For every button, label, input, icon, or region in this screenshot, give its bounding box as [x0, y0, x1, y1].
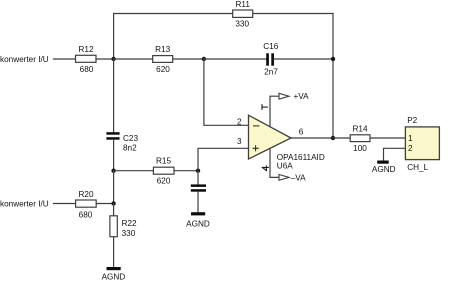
svg-text:2n7: 2n7	[264, 68, 278, 77]
svg-text:R22: R22	[122, 219, 137, 228]
svg-text:1: 1	[408, 134, 413, 143]
wire top feedback rail left segment	[114, 13, 233, 15]
wire node D up to op-amp pin 3	[198, 148, 249, 170]
wire top feedback rail right segment	[253, 13, 333, 15]
wire left vertical from top rail down to input node	[113, 14, 115, 60]
svg-text:3: 3	[237, 137, 242, 146]
svg-text:–VA: –VA	[291, 173, 306, 182]
svg-text:C16: C16	[263, 42, 278, 51]
wire C16 to right rail	[274, 58, 333, 60]
svg-text:AGND: AGND	[372, 165, 396, 174]
svg-text:6: 6	[299, 128, 304, 137]
junction node B (inverting input net)	[202, 57, 206, 61]
wire node C down to input node 2	[113, 171, 115, 204]
wire node B to C16	[204, 58, 267, 60]
resistor R22	[110, 216, 137, 238]
svg-text:R13: R13	[155, 45, 170, 54]
wire output node to R14	[333, 137, 350, 139]
svg-text:CH_L: CH_L	[407, 163, 428, 172]
power symbol +VA	[279, 92, 309, 101]
op-amp minus symbol	[254, 125, 259, 127]
svg-text:R12: R12	[78, 45, 93, 54]
wire op-amp pin 7 to +VA	[270, 96, 279, 126]
wire R12 to node A	[96, 58, 114, 60]
ground AGND below R22	[102, 267, 126, 282]
junction output node on right rail	[331, 136, 335, 140]
junction node E	[111, 201, 115, 205]
wire op-amp pin 4 to -VA	[270, 149, 279, 178]
ground AGND below capacitor	[186, 212, 210, 228]
capacitor C16	[263, 42, 278, 76]
node input 2 label konwerter I/U	[0, 199, 49, 208]
pin 2 label	[237, 117, 242, 126]
resistor R15	[153, 157, 174, 186]
wire P2 pin 2 to AGND	[384, 148, 406, 160]
capacitor C23	[106, 132, 138, 152]
wire R14 to P2 pin 1	[370, 137, 405, 139]
wire C23 down to node C	[113, 140, 115, 171]
svg-text:R11: R11	[235, 0, 250, 9]
svg-text:AGND: AGND	[102, 273, 126, 282]
node input 1 label konwerter I/U	[0, 55, 49, 64]
pin 3 label	[237, 137, 242, 146]
op-amp part labels OPA1611AID U6A	[277, 153, 325, 171]
resistor R12	[76, 45, 97, 74]
pin 4 label (rotated digit 4 drawn as path)	[262, 166, 268, 171]
resistor R20	[76, 190, 97, 220]
wire capacitor to AGND	[197, 192, 199, 212]
wire input2 to R20	[54, 203, 76, 205]
op-amp plus symbol	[253, 146, 258, 151]
resistor R11	[233, 0, 253, 29]
svg-text:+VA: +VA	[294, 92, 310, 101]
wire R22 to AGND	[113, 237, 115, 267]
svg-text:U6A: U6A	[277, 162, 293, 171]
svg-text:100: 100	[353, 144, 367, 153]
wire R15 to node D	[174, 170, 198, 172]
svg-text:konwerter I/U: konwerter I/U	[0, 55, 49, 64]
svg-text:330: 330	[122, 229, 136, 238]
svg-text:R20: R20	[78, 190, 93, 199]
wire right vertical rail (output net)	[332, 14, 334, 139]
junction node A (input summing node)	[111, 57, 115, 61]
svg-text:620: 620	[156, 65, 170, 74]
power symbol -VA	[279, 173, 306, 182]
svg-text:8n2: 8n2	[123, 144, 137, 153]
capacitor (unlabeled) at non-inverting input	[191, 184, 206, 191]
op-amp U6A triangle	[249, 115, 292, 159]
wire node D down to bypass capacitor	[197, 171, 199, 185]
wire node A to R13	[114, 58, 153, 60]
wire node E down to R22	[113, 204, 115, 216]
pin 7 label (rotated digit 7 drawn as path)	[262, 105, 267, 110]
wire node B down to op-amp pin 2	[204, 59, 249, 125]
svg-text:P2: P2	[407, 116, 417, 125]
ground AGND at P2 pin 2	[372, 161, 396, 175]
svg-text:2: 2	[408, 144, 413, 153]
wire R20 to node E	[96, 203, 113, 205]
svg-text:C23: C23	[123, 134, 138, 143]
resistor R14	[350, 124, 370, 153]
junction node C	[111, 169, 115, 173]
wire node A down to C23	[113, 59, 115, 133]
svg-text:konwerter I/U: konwerter I/U	[0, 199, 49, 208]
svg-text:680: 680	[80, 65, 94, 74]
svg-text:OPA1611AID: OPA1611AID	[277, 153, 325, 162]
junction right rail / C16 net	[331, 57, 335, 61]
wire op-amp output pin 6 to right rail	[291, 137, 333, 139]
wire input1 to R12	[54, 58, 76, 60]
svg-text:R15: R15	[156, 157, 171, 166]
svg-text:AGND: AGND	[186, 220, 210, 229]
junction node D (non-inverting input net)	[196, 169, 200, 173]
svg-text:680: 680	[79, 211, 93, 220]
svg-text:R14: R14	[352, 124, 367, 133]
connector P2	[405, 116, 439, 172]
wire node C to R15	[114, 170, 154, 172]
svg-text:330: 330	[235, 20, 249, 29]
pin 6 label	[299, 128, 304, 137]
svg-text:2: 2	[237, 117, 242, 126]
resistor R13	[153, 45, 173, 74]
wire R13 to node B	[173, 58, 204, 60]
svg-text:620: 620	[157, 176, 171, 185]
